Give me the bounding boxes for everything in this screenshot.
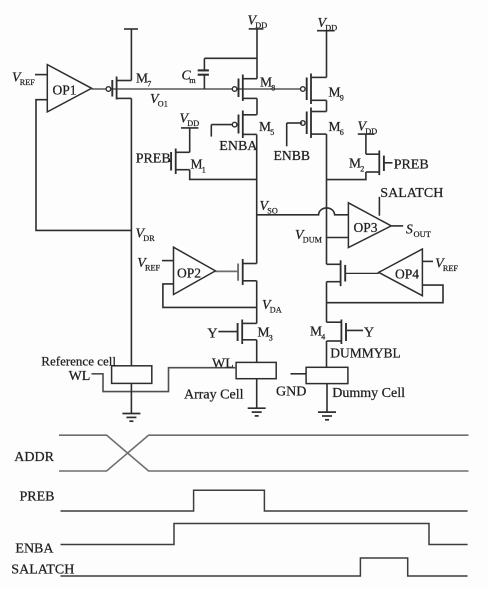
- svg-text:OP3: OP3: [354, 220, 378, 235]
- svg-text:S: S: [406, 222, 413, 237]
- svg-text:DD: DD: [365, 127, 377, 136]
- svg-text:m: m: [189, 76, 196, 85]
- svg-text:M: M: [329, 119, 341, 134]
- svg-text:3: 3: [269, 334, 273, 343]
- svg-text:M: M: [349, 156, 361, 171]
- svg-text:SALATCH: SALATCH: [380, 186, 443, 201]
- svg-text:SALATCH: SALATCH: [11, 563, 74, 578]
- svg-text:6: 6: [340, 128, 344, 137]
- svg-text:DD: DD: [325, 23, 337, 32]
- svg-text:PREB: PREB: [136, 152, 171, 167]
- svg-text:OP2: OP2: [177, 266, 201, 281]
- svg-text:OUT: OUT: [414, 229, 432, 239]
- svg-text:DR: DR: [143, 234, 155, 243]
- svg-text:Reference cell: Reference cell: [41, 354, 116, 369]
- svg-text:SO: SO: [267, 206, 278, 215]
- svg-text:DUM: DUM: [303, 235, 323, 244]
- svg-text:M: M: [136, 71, 148, 86]
- svg-text:DUMMYBL: DUMMYBL: [330, 346, 401, 361]
- svg-text:GND: GND: [276, 385, 306, 400]
- svg-text:PREB: PREB: [20, 490, 55, 505]
- svg-text:ENBB: ENBB: [274, 148, 311, 163]
- svg-text:DD: DD: [187, 119, 199, 128]
- svg-text:O1: O1: [158, 99, 168, 108]
- svg-text:M: M: [329, 85, 341, 100]
- svg-text:DD: DD: [255, 21, 267, 30]
- svg-text:REF: REF: [443, 264, 458, 273]
- svg-text:2: 2: [360, 165, 364, 174]
- svg-text:Array Cell: Array Cell: [184, 388, 244, 403]
- svg-text:M: M: [258, 325, 270, 340]
- svg-text:DA: DA: [270, 305, 282, 314]
- svg-text:Y: Y: [364, 326, 374, 341]
- svg-text:PREB: PREB: [394, 158, 429, 173]
- svg-text:1: 1: [202, 166, 206, 175]
- svg-text:OP1: OP1: [53, 83, 77, 98]
- svg-text:M: M: [260, 75, 272, 90]
- svg-text:REF: REF: [145, 263, 160, 272]
- svg-text:M: M: [259, 119, 271, 134]
- svg-text:ADDR: ADDR: [14, 450, 54, 465]
- svg-text:WL: WL: [69, 369, 91, 384]
- svg-text:OP4: OP4: [395, 267, 419, 282]
- svg-text:M: M: [310, 324, 322, 339]
- svg-text:ENBA: ENBA: [15, 542, 54, 557]
- svg-text:ENBA: ENBA: [219, 139, 258, 154]
- svg-text:8: 8: [271, 84, 275, 93]
- svg-text:Dummy Cell: Dummy Cell: [332, 386, 405, 401]
- svg-text:7: 7: [147, 80, 151, 89]
- svg-text:4: 4: [321, 333, 325, 342]
- svg-text:9: 9: [340, 94, 344, 103]
- svg-text:M: M: [191, 157, 203, 172]
- svg-text:5: 5: [270, 128, 274, 137]
- svg-text:WL: WL: [212, 357, 234, 372]
- svg-text:REF: REF: [20, 78, 35, 87]
- svg-text:Y: Y: [207, 327, 217, 342]
